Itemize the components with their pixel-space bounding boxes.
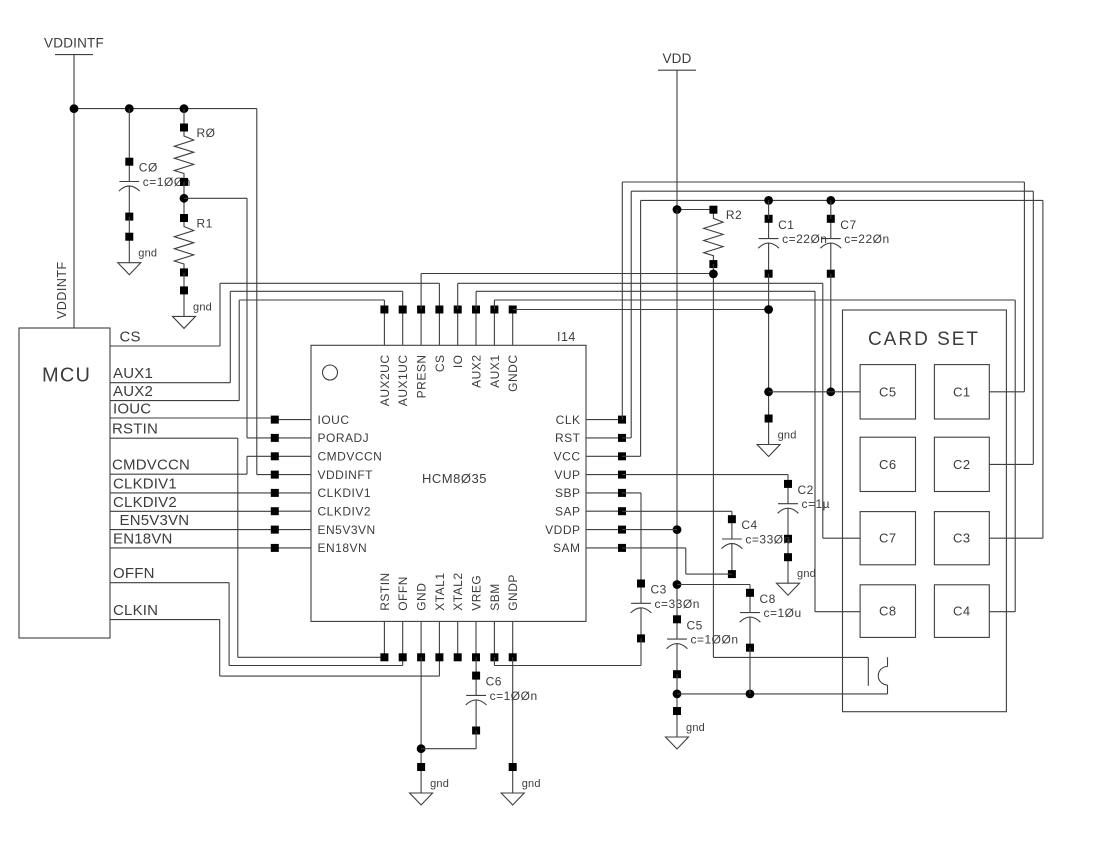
svg-text:RØ: RØ (197, 126, 216, 140)
IC right pins with pads and labels (586, 419, 622, 421)
svg-text:CMDVCCN: CMDVCCN (318, 450, 383, 464)
wire CS net (MCU to IC pin CS) (110, 345, 220, 347)
svg-text:C4: C4 (953, 604, 971, 619)
capacitor C5 (676, 619, 678, 639)
svg-text:EN18VN: EN18VN (318, 541, 368, 555)
svg-text:C5: C5 (687, 618, 703, 632)
svg-text:VUP: VUP (554, 468, 580, 482)
switch card presence contact right with bump (887, 657, 889, 666)
svg-text:VDDP: VDDP (545, 523, 580, 537)
svg-text:XTAL1: XTAL1 (433, 573, 447, 611)
svg-text:MCU: MCU (42, 365, 91, 387)
wire VDDINTF to VDDINFT pin (256, 109, 258, 475)
wire ground run to switch (677, 693, 888, 695)
svg-text:C7: C7 (879, 531, 897, 546)
wire VCC net to card contact C3 (622, 455, 641, 457)
wire R0-R1 node (183, 182, 185, 218)
svg-text:RSTIN: RSTIN (112, 421, 158, 438)
wire CLKDIV2 net (110, 510, 275, 512)
wire C6 bottom to GND (475, 731, 477, 749)
svg-text:RSTIN: RSTIN (378, 572, 392, 611)
svg-text:VDD: VDD (662, 51, 691, 66)
ground for GND pin (420, 767, 422, 793)
svg-text:AUX1: AUX1 (113, 365, 153, 382)
card contact C4 (934, 585, 989, 638)
svg-text:VREG: VREG (470, 575, 484, 611)
op IC U1 HCM8035 body (311, 345, 586, 621)
capacitor C1 (768, 219, 770, 239)
ground for C0 (128, 237, 130, 263)
card contact C7 (860, 512, 915, 565)
wire C7 bottom to gnd net (830, 274, 832, 392)
capacitor C6 on VREG (475, 657, 477, 675)
svg-text:c=1ØØn: c=1ØØn (691, 633, 739, 647)
svg-text:C8: C8 (760, 592, 776, 606)
capacitor C7 (830, 219, 832, 239)
wire EN18VN net (110, 547, 275, 549)
card contact C3 (934, 512, 989, 565)
capacitor C3 (640, 584, 642, 604)
svg-text:c=33Øn: c=33Øn (745, 533, 790, 547)
svg-text:GNDC: GNDC (506, 355, 520, 392)
svg-text:c=33Øn: c=33Øn (655, 597, 700, 611)
svg-text:OFFN: OFFN (113, 565, 155, 582)
svg-text:c=1µ: c=1µ (802, 497, 831, 511)
capacitor C4 (731, 519, 733, 539)
ground for C2 (787, 557, 789, 583)
capacitor C2 (787, 484, 789, 504)
node VDDINTF rail junctions (70, 104, 79, 113)
svg-text:GND: GND (415, 583, 429, 611)
wire VDD tap to C8 (677, 584, 750, 586)
svg-text:C3: C3 (953, 531, 971, 546)
svg-text:HCM8Ø35: HCM8Ø35 (422, 471, 487, 486)
svg-text:gnd: gnd (797, 568, 816, 580)
wire GNDP pin to ground (512, 657, 514, 767)
svg-text:PRESN: PRESN (415, 355, 429, 399)
svg-text:EN5V3VN: EN5V3VN (318, 523, 376, 537)
wire VUP net to C2 (622, 474, 788, 476)
wire EN5V3VN net (110, 529, 275, 531)
svg-text:VDDINTF: VDDINTF (44, 36, 104, 51)
wire VDD to R2 (677, 209, 713, 211)
wire RST net to card contact C2 (622, 437, 631, 439)
svg-text:C5: C5 (879, 384, 897, 399)
capacitor C0 (128, 109, 130, 162)
wire IOUC net (110, 417, 275, 419)
svg-text:IOUC: IOUC (318, 413, 350, 427)
svg-text:AUX1UC: AUX1UC (396, 355, 410, 407)
wire VDDP net (622, 529, 677, 531)
svg-text:gnd: gnd (138, 248, 157, 260)
svg-text:c=22Øn: c=22Øn (844, 232, 889, 246)
wire C4 bottom to SAM (686, 573, 732, 575)
svg-text:C1: C1 (953, 384, 971, 399)
wire CLKIN net (MCU to XTAL1) (110, 619, 220, 621)
svg-text:CLKDIV1: CLKDIV1 (113, 475, 177, 492)
svg-text:C2: C2 (798, 483, 814, 497)
svg-text:c=1Øu: c=1Øu (764, 606, 802, 620)
IC top pins with pads and labels (383, 310, 385, 346)
wire OFFN net (MCU to IC bottom pin OFFN) (110, 582, 229, 584)
wire GNDC net (513, 309, 769, 311)
wire RSTIN net (MCU to IC bottom pin RSTIN) (110, 437, 238, 439)
svg-text:SBP: SBP (555, 486, 581, 500)
wire PRESN net to R2 (420, 274, 422, 310)
wire C1 bottom to gnd net (768, 274, 770, 419)
svg-text:AUX2: AUX2 (113, 383, 153, 400)
svg-text:gnd: gnd (686, 722, 705, 734)
wire CLK net to card contact C1 (621, 182, 623, 420)
svg-text:EN18VN: EN18VN (113, 530, 173, 547)
ground for GNDP pin (512, 767, 514, 793)
svg-text:SAP: SAP (555, 505, 581, 519)
card contact C6 (860, 437, 915, 491)
svg-text:C8: C8 (879, 604, 897, 619)
wire VDDINTF rail (74, 108, 257, 110)
svg-text:AUX2UC: AUX2UC (378, 355, 392, 407)
svg-text:CLKDIV1: CLKDIV1 (318, 486, 372, 500)
svg-text:C4: C4 (741, 518, 757, 532)
svg-text:IOUC: IOUC (113, 401, 151, 418)
svg-text:CLK: CLK (556, 413, 581, 427)
svg-text:C1: C1 (778, 218, 794, 232)
wire VDD vertical (VDDP / C5) (676, 210, 678, 620)
ground for C5 (676, 711, 678, 737)
svg-text:C7: C7 (840, 218, 856, 232)
svg-text:c=1ØØn: c=1ØØn (490, 689, 538, 703)
svg-text:gnd: gnd (430, 778, 449, 790)
svg-text:VDDINTF: VDDINTF (55, 261, 69, 319)
svg-text:IO: IO (451, 355, 465, 369)
wire CLKDIV1 net (110, 492, 275, 494)
ground for R1 (183, 290, 185, 316)
wire gnd net to card contact C5 (769, 391, 861, 393)
svg-text:SAM: SAM (553, 541, 581, 555)
resistor R0 (183, 109, 185, 128)
svg-text:CS: CS (433, 355, 447, 373)
wire R2 to switch (PRESN) (712, 264, 714, 657)
svg-text:GNDP: GNDP (506, 574, 520, 611)
resistor R2 (704, 210, 723, 264)
card contact C1 (934, 365, 989, 419)
svg-text:gnd: gnd (522, 778, 541, 790)
svg-text:AUX2: AUX2 (470, 355, 484, 388)
svg-text:OFFN: OFFN (396, 576, 410, 611)
wire CMDVCCN net (110, 473, 247, 475)
svg-text:R2: R2 (726, 208, 742, 222)
wire AUX1 net to card contact C4 (493, 300, 495, 310)
svg-text:RST: RST (555, 431, 581, 445)
card contact C2 (934, 437, 989, 491)
wire AUX2 net to card contact C8 (475, 291, 477, 309)
IC bottom pins with pads and labels (383, 621, 385, 657)
svg-text:VCC: VCC (554, 450, 581, 464)
card contact C5 (860, 365, 915, 419)
svg-text:CMDVCCN: CMDVCCN (112, 457, 190, 474)
svg-text:EN5V3VN: EN5V3VN (120, 512, 190, 529)
IC left pins with pads and labels (275, 419, 311, 421)
svg-text:AUX1: AUX1 (488, 355, 502, 388)
svg-text:CØ: CØ (139, 161, 158, 175)
wire IO net to card contact C7 (457, 283, 459, 309)
svg-text:PORADJ: PORADJ (318, 431, 370, 445)
svg-text:gnd: gnd (778, 430, 797, 442)
wire AUX2 net (MCU to AUX2UC) (110, 400, 239, 402)
svg-text:CLKDIV2: CLKDIV2 (113, 494, 177, 511)
wire AUX1 net (MCU to AUX1UC) (110, 382, 230, 384)
svg-text:CS: CS (120, 329, 141, 346)
svg-text:XTAL2: XTAL2 (451, 573, 465, 611)
wire C3 bottom to SBM (640, 638, 642, 665)
svg-text:C2: C2 (953, 457, 971, 472)
resistor R1 (174, 218, 193, 272)
svg-text:C6: C6 (879, 457, 897, 472)
svg-text:C3: C3 (651, 583, 667, 597)
switch card presence contact left (867, 657, 869, 685)
wire PORADJ net (184, 197, 247, 199)
MCU block (19, 328, 110, 638)
svg-text:VDDINFT: VDDINFT (318, 468, 374, 482)
svg-text:R1: R1 (197, 217, 213, 231)
svg-text:CARD SET: CARD SET (868, 329, 980, 350)
wire SBP net to C3 (622, 492, 641, 494)
ground for C1/GNDC (768, 419, 770, 445)
wire GND pin to ground (420, 657, 422, 767)
capacitor C8 (749, 593, 751, 613)
svg-text:c=22Øn: c=22Øn (782, 232, 827, 246)
svg-text:gnd: gnd (193, 301, 212, 313)
card contact C8 (860, 585, 915, 638)
svg-text:C6: C6 (486, 675, 502, 689)
wire SAP net to C4 (622, 510, 732, 512)
svg-text:SBM: SBM (488, 583, 502, 611)
block CARD SET (843, 310, 1007, 712)
svg-text:CLKDIV2: CLKDIV2 (318, 505, 372, 519)
svg-text:CLKIN: CLKIN (113, 602, 158, 619)
svg-text:I14: I14 (557, 330, 576, 344)
